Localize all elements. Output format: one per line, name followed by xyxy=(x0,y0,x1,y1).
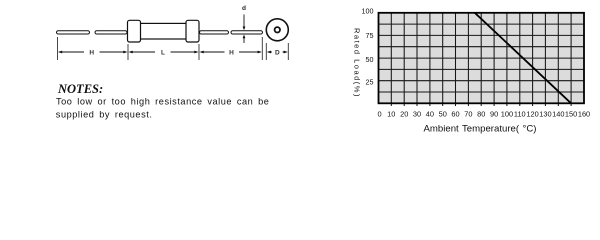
svg-text:40: 40 xyxy=(426,110,434,119)
svg-text:50: 50 xyxy=(439,110,447,119)
extension line body right xyxy=(198,44,200,60)
svg-text:H: H xyxy=(229,50,234,57)
notes heading xyxy=(57,82,103,96)
svg-text:30: 30 xyxy=(413,110,421,119)
chart border xyxy=(379,13,585,104)
svg-text:d: d xyxy=(242,5,246,12)
x axis tick labels xyxy=(377,110,590,119)
svg-text:160: 160 xyxy=(578,110,590,119)
x axis title Ambient Temperature xyxy=(424,123,537,134)
chart grid horizontal lines xyxy=(379,24,585,92)
resistor body cylinder xyxy=(140,23,187,39)
y axis title Rated Load(%) xyxy=(352,28,361,98)
dimension D xyxy=(267,50,288,57)
svg-text:L: L xyxy=(161,50,165,57)
y axis label 50 xyxy=(366,55,374,64)
chart plot background xyxy=(379,13,585,104)
dimension H left xyxy=(58,50,128,57)
svg-text:20: 20 xyxy=(400,110,408,119)
svg-text:supplied by request.: supplied by request. xyxy=(56,109,153,119)
y axis label 25 xyxy=(366,78,374,87)
svg-text:150: 150 xyxy=(565,110,577,119)
svg-text:70: 70 xyxy=(464,110,472,119)
svg-text:Rated Load(%): Rated Load(%) xyxy=(352,28,361,98)
svg-text:H: H xyxy=(89,50,94,57)
svg-text:100: 100 xyxy=(362,7,374,16)
dimension L xyxy=(128,50,198,57)
chart grid vertical lines xyxy=(391,13,571,106)
y axis label 100 xyxy=(362,7,374,16)
svg-text:NOTES:: NOTES: xyxy=(57,82,103,96)
extension line body left xyxy=(127,44,129,60)
svg-text:140: 140 xyxy=(552,110,564,119)
svg-text:D: D xyxy=(275,50,280,57)
notes line 2 xyxy=(56,109,153,119)
svg-text:25: 25 xyxy=(366,78,374,87)
resistor end cap left xyxy=(128,20,141,42)
svg-text:120: 120 xyxy=(526,110,538,119)
lead wire left segment 2 xyxy=(95,31,127,34)
y axis label 75 xyxy=(366,31,374,40)
svg-text:90: 90 xyxy=(490,110,498,119)
svg-text:80: 80 xyxy=(477,110,485,119)
dimension d label xyxy=(242,5,246,12)
svg-text:Ambient Temperature( °C): Ambient Temperature( °C) xyxy=(424,123,537,134)
dimension d arrow below xyxy=(243,35,246,44)
lead wire left segment 1 xyxy=(57,31,90,34)
svg-text:100: 100 xyxy=(501,110,513,119)
notes line 1 xyxy=(56,96,269,106)
derating curve xyxy=(475,13,571,104)
svg-text:75: 75 xyxy=(366,31,374,40)
dimension d arrow above xyxy=(243,15,246,31)
extension line left lead end xyxy=(57,37,59,60)
svg-text:Too low or too high resistance: Too low or too high resistance value can… xyxy=(56,96,269,106)
svg-text:60: 60 xyxy=(451,110,459,119)
dimension H right xyxy=(199,50,262,57)
svg-text:50: 50 xyxy=(366,55,374,64)
extension line circle left xyxy=(265,43,267,60)
resistor end cap right xyxy=(186,20,199,42)
extension line circle right xyxy=(287,43,289,60)
end view circle xyxy=(266,19,288,41)
lead wire right segment 1 xyxy=(200,31,229,34)
svg-text:130: 130 xyxy=(539,110,551,119)
svg-text:110: 110 xyxy=(514,110,526,119)
end view center hole xyxy=(275,27,280,32)
lead wire right segment 2 xyxy=(231,31,263,34)
svg-text:0: 0 xyxy=(377,110,381,119)
svg-text:10: 10 xyxy=(387,110,395,119)
extension line right lead end xyxy=(261,37,263,60)
